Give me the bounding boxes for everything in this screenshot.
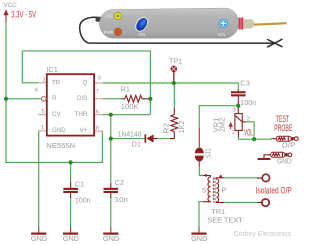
op-amp IC1 NE555N box xyxy=(46,65,94,150)
pin 3 stub xyxy=(95,82,103,84)
svg-text:100n: 100n xyxy=(75,195,91,204)
svg-text:2: 2 xyxy=(43,78,46,84)
svg-text:GND: GND xyxy=(277,157,292,166)
pin 1 stub xyxy=(39,130,46,132)
svg-text:GND: GND xyxy=(63,234,79,243)
wire DIS to R1 xyxy=(103,98,122,100)
wire wiper to output xyxy=(246,122,254,139)
wire D1 horizontal xyxy=(111,138,145,140)
wire TR1 secondary top to terminal xyxy=(224,177,262,179)
node TP1 junction xyxy=(172,81,176,85)
probe cable and arrow xyxy=(80,17,282,47)
wire Q line xyxy=(103,83,239,89)
svg-text:Q: Q xyxy=(82,79,87,86)
svg-text:C2: C2 xyxy=(115,178,124,187)
wire TR1 secondary bottom to terminal xyxy=(224,201,261,203)
pin 7 stub xyxy=(95,98,103,100)
LED SIG yellow xyxy=(114,13,121,20)
tip cone xyxy=(243,19,254,29)
tip collar xyxy=(239,18,244,30)
needle xyxy=(254,23,287,25)
svg-text:Codrey Electronics: Codrey Electronics xyxy=(234,231,292,238)
terminal Isolated O/P bottom xyxy=(257,199,269,206)
wire SJ1 to TR1 xyxy=(199,167,203,176)
svg-text:7: 7 xyxy=(96,89,99,95)
connector probe GND xyxy=(264,152,292,158)
tip neck xyxy=(232,20,241,28)
transformer TR1 xyxy=(202,174,243,224)
ground C1 xyxy=(63,227,79,243)
button ON blue xyxy=(133,15,151,35)
svg-text:100K: 100K xyxy=(121,102,139,111)
wire IC pin1 to GND xyxy=(38,131,40,227)
ground C2 xyxy=(103,227,119,243)
capacitor C2 10n xyxy=(104,178,129,204)
ground IC pin1 xyxy=(31,227,47,243)
ground small near probe GND connector xyxy=(258,158,271,160)
svg-text:ON: ON xyxy=(138,32,145,37)
svg-text:3: 3 xyxy=(233,107,236,113)
wire C2 bottom to GND xyxy=(110,197,112,227)
node VCC junction at R pin xyxy=(4,97,8,101)
svg-text:2: 2 xyxy=(247,116,250,122)
pin 4 inversion circle xyxy=(42,97,46,101)
svg-text:R1: R1 xyxy=(121,84,130,93)
node VCC junction at C1 xyxy=(69,160,73,164)
power flag VCC xyxy=(3,2,17,23)
svg-text:D1: D1 xyxy=(132,140,141,149)
wire R2 top xyxy=(173,83,175,108)
svg-text:3: 3 xyxy=(98,76,101,82)
svg-text:PWR: PWR xyxy=(104,30,114,35)
svg-text:GND: GND xyxy=(103,234,119,243)
svg-text:6: 6 xyxy=(96,109,99,115)
test point TP1 xyxy=(169,57,182,83)
node R1 right junction xyxy=(148,97,152,101)
svg-text:10n: 10n xyxy=(115,195,128,204)
wire VCC vertical rail xyxy=(6,23,102,163)
wire output line xyxy=(238,137,271,139)
svg-text:1K2: 1K2 xyxy=(177,120,186,133)
wire C3 bottom to SJ1 column xyxy=(199,106,238,128)
svg-text:TP1: TP1 xyxy=(169,57,182,66)
resistor R2 1K2 xyxy=(161,108,186,139)
svg-text:DIS: DIS xyxy=(77,95,87,102)
svg-text:C3: C3 xyxy=(240,78,249,87)
svg-text:GND: GND xyxy=(52,127,66,134)
node D1 junction xyxy=(109,137,113,141)
resistor R1 100K xyxy=(121,84,151,110)
svg-text:VOL: VOL xyxy=(217,32,226,37)
button VOL plus xyxy=(219,19,228,28)
svg-text:O/P: O/P xyxy=(282,141,296,150)
svg-text:CV: CV xyxy=(52,111,61,118)
wire TR branch and top bus xyxy=(22,51,150,115)
terminal Isolated O/P top xyxy=(257,174,270,181)
wire C1 bottom to GND xyxy=(70,197,72,227)
capacitor C1 100n xyxy=(63,180,90,205)
wire C1 top xyxy=(70,162,72,182)
svg-text:Isolated O/P: Isolated O/P xyxy=(256,185,292,195)
wire TR1 left bottom to GND xyxy=(199,202,203,228)
svg-text:2M2: 2M2 xyxy=(217,118,226,133)
svg-text:100n: 100n xyxy=(240,98,256,107)
body xyxy=(99,8,238,38)
svg-text:V+: V+ xyxy=(80,127,88,134)
svg-text:C1: C1 xyxy=(75,180,84,189)
connector test probe O/P xyxy=(271,136,298,141)
diode D1 1N4148 xyxy=(118,129,157,148)
svg-text:SEE TEXT: SEE TEXT xyxy=(207,215,243,224)
svg-text:8: 8 xyxy=(96,125,99,131)
svg-text:1N4148: 1N4148 xyxy=(118,129,142,138)
svg-text:4: 4 xyxy=(35,87,38,93)
capacitor C3 100n xyxy=(231,78,256,107)
svg-text:PROBE: PROBE xyxy=(274,123,292,133)
node C3 bottom junction xyxy=(236,104,240,108)
svg-text:3.3V - 5V: 3.3V - 5V xyxy=(11,9,36,19)
svg-text:R2: R2 xyxy=(161,123,170,133)
svg-text:VOL: VOL xyxy=(244,127,252,137)
pin 8 stub xyxy=(95,130,102,132)
svg-text:1: 1 xyxy=(41,125,44,131)
wire THR to bus xyxy=(103,114,151,116)
svg-text:R: R xyxy=(52,95,57,102)
pin 5 stub xyxy=(38,114,46,116)
logic probe photo xyxy=(96,8,287,38)
pin 6 stub xyxy=(95,114,103,116)
svg-text:GND: GND xyxy=(191,234,207,243)
cable nub xyxy=(96,17,103,22)
svg-text:GND: GND xyxy=(31,234,47,243)
wire THR down to C2 xyxy=(110,115,112,183)
wire VCC to pin 4 xyxy=(6,98,42,100)
pin 2 stub xyxy=(39,82,46,84)
ground TR1 xyxy=(191,227,207,243)
svg-text:1: 1 xyxy=(232,130,235,136)
node THR junction xyxy=(109,113,113,117)
svg-text:P: P xyxy=(221,185,226,194)
svg-text:5: 5 xyxy=(42,109,45,115)
node output junction xyxy=(252,137,256,141)
svg-text:VCC: VCC xyxy=(4,2,18,9)
svg-text:TR: TR xyxy=(52,79,61,86)
solder jumper SJ1 xyxy=(195,128,213,167)
svg-text:S: S xyxy=(202,185,207,194)
svg-text:NE555N: NE555N xyxy=(46,141,75,150)
svg-text:IC1: IC1 xyxy=(46,65,57,74)
LED PWR orange xyxy=(114,28,121,35)
svg-text:THR: THR xyxy=(75,111,88,118)
svg-text:SIG: SIG xyxy=(105,13,113,18)
trimmer VR1 2M2 xyxy=(212,106,253,138)
svg-text:SJ1: SJ1 xyxy=(203,148,212,158)
